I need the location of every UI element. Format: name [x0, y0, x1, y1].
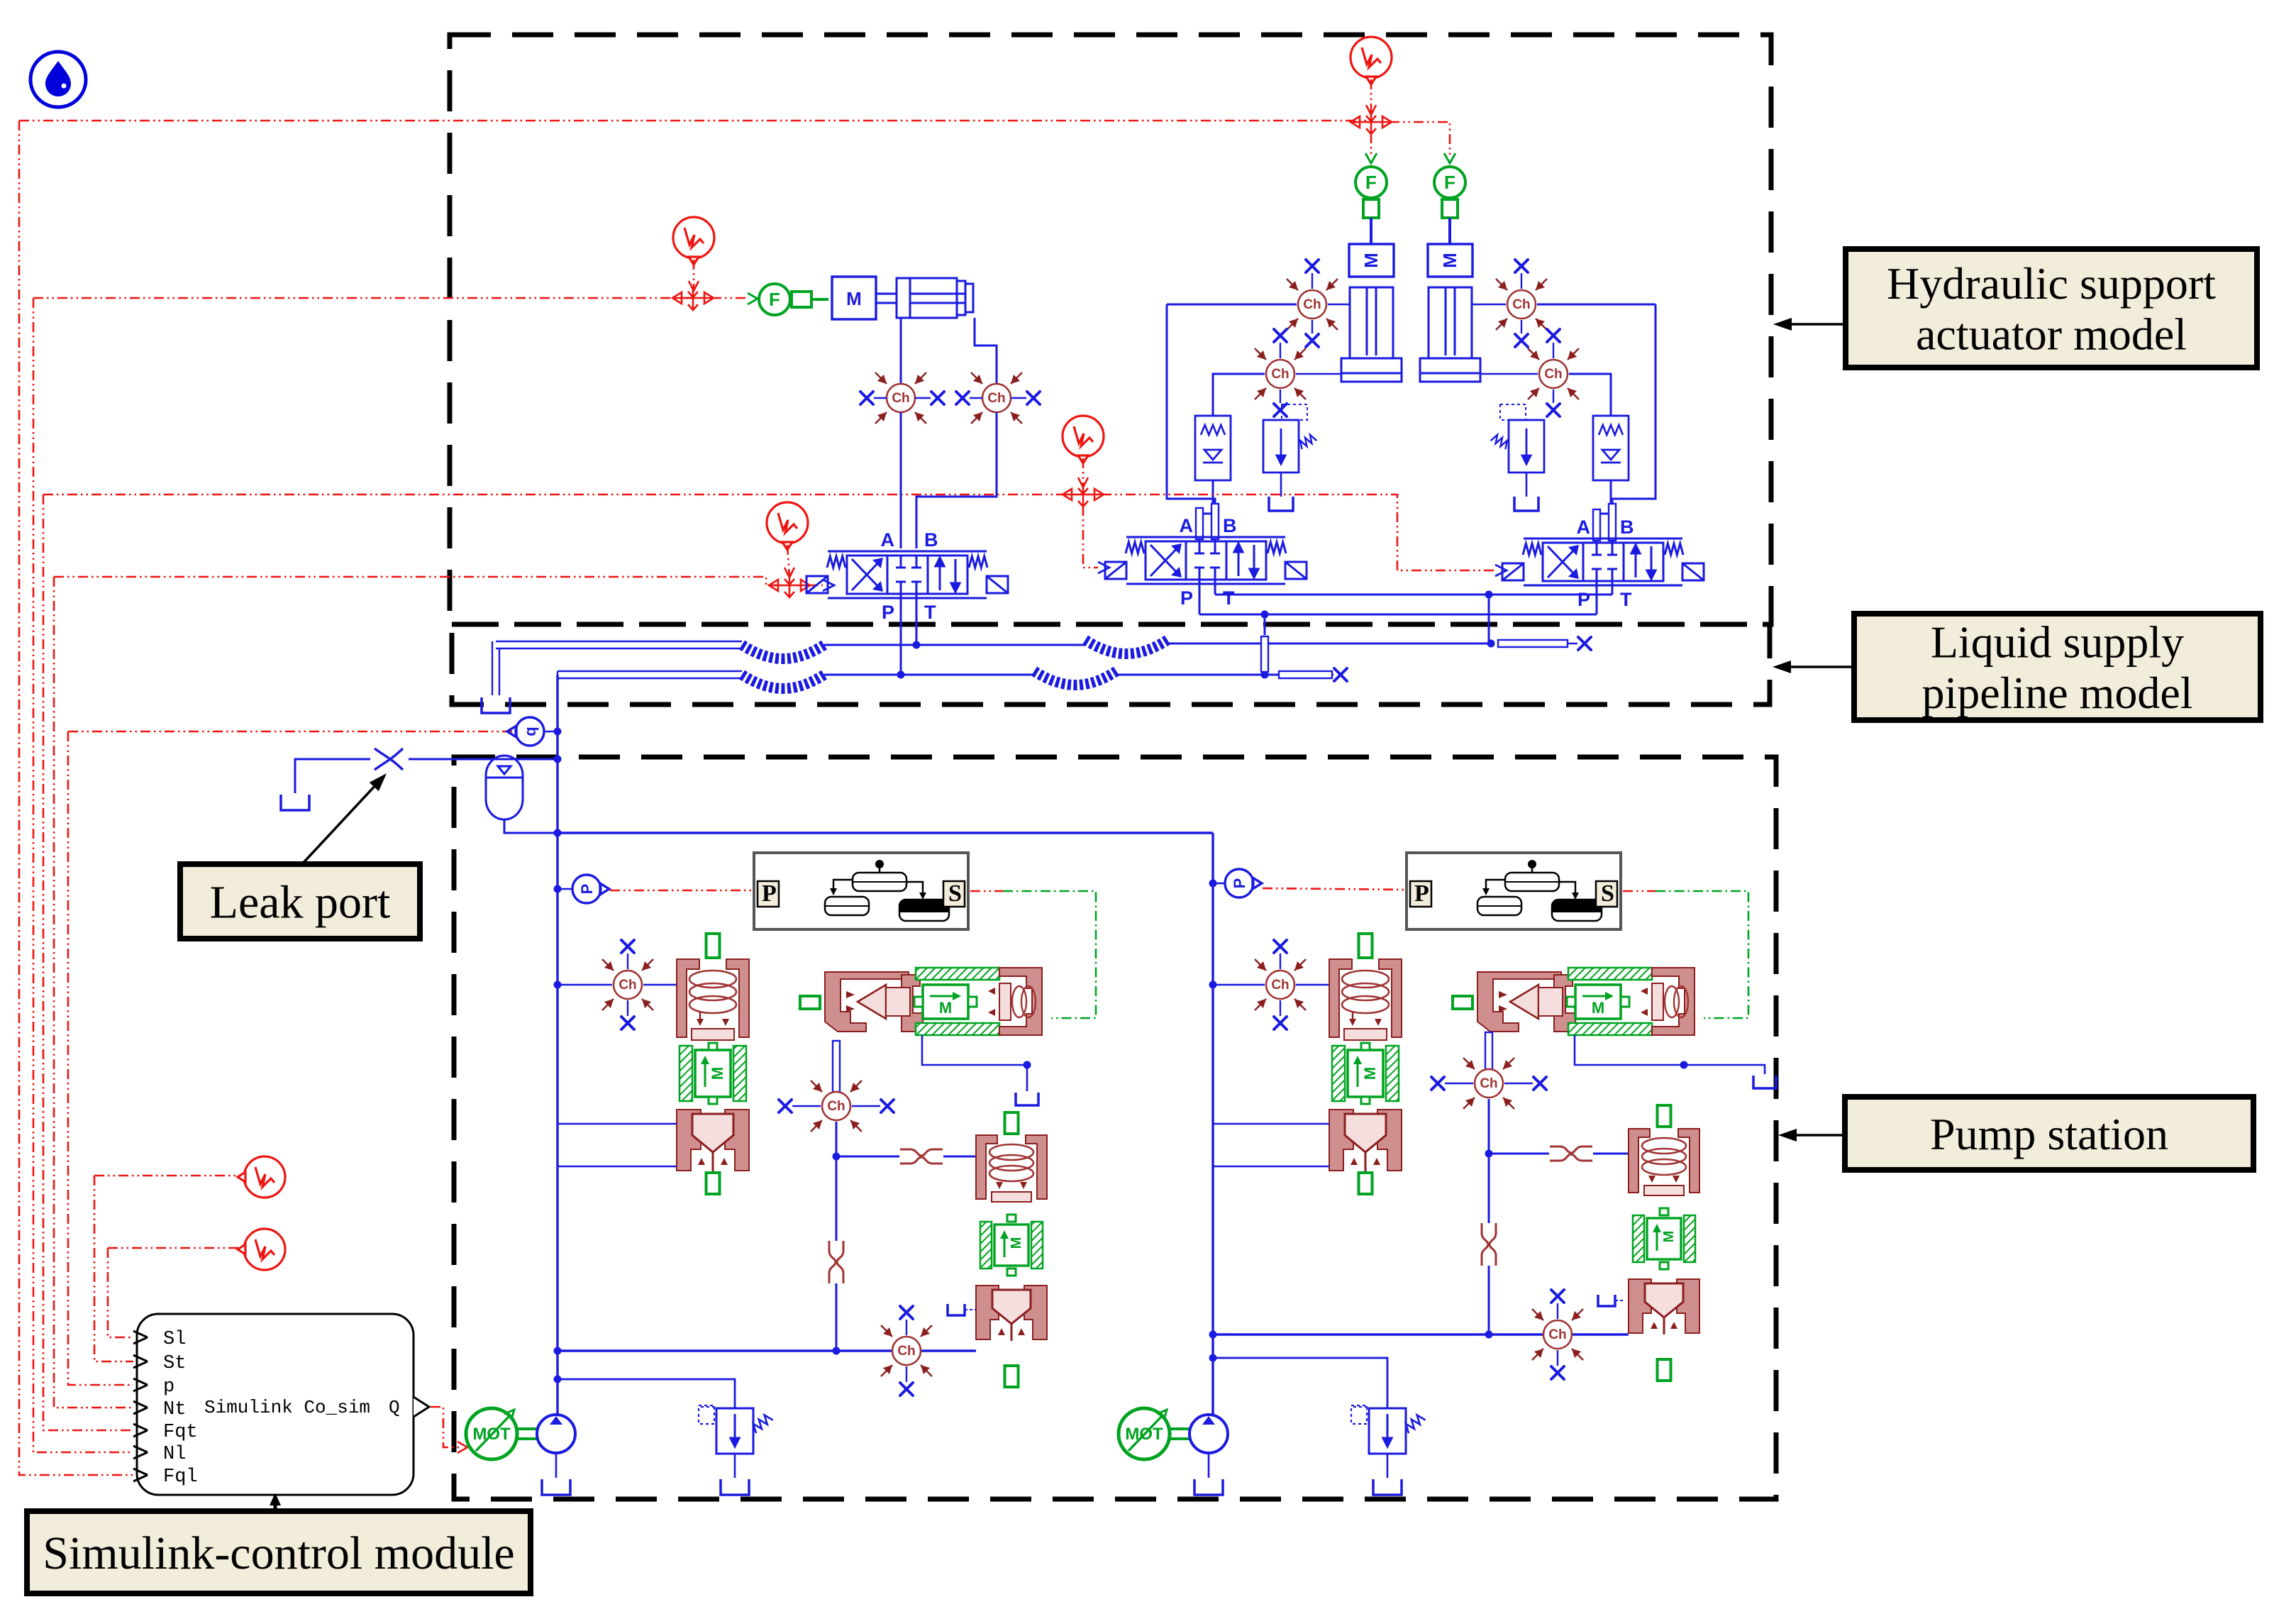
junction lower pipe valve1 P — [897, 671, 905, 679]
vertical cylinder 3 — [1420, 287, 1480, 382]
tank under relief right group — [1387, 1454, 1389, 1478]
x mark above Ch cyl2 upper — [1311, 273, 1313, 289]
svg-text:Ch: Ch — [1480, 1076, 1497, 1091]
green port above unloader right — [1359, 934, 1372, 958]
wire rail R1 down to upper pipe — [1488, 595, 1490, 645]
check valve left — [1195, 416, 1231, 480]
signal wire junction2 down into valve2 — [1083, 506, 1098, 568]
bracket tank beside funnel right — [1598, 1295, 1615, 1306]
lower pipe right segment — [1116, 674, 1279, 676]
right rail down to valve3 B — [1612, 304, 1656, 543]
motor and pump right group — [1119, 1408, 1228, 1459]
wire check left to valve2 A — [1199, 480, 1213, 541]
x above Ch rail left — [906, 1320, 907, 1335]
stub and x end upper pipe — [1568, 643, 1577, 644]
main riser left pump group — [556, 675, 558, 1415]
svg-text:Simulink-control module: Simulink-control module — [43, 1527, 514, 1579]
swash pump assembly left — [825, 968, 1042, 1035]
orifice horizontal left group — [900, 1149, 943, 1164]
left rail down to valve2 B — [1167, 304, 1215, 541]
x above Ch inlet left — [627, 954, 628, 969]
signal wire junction2 to valve3 — [1102, 494, 1495, 570]
arrow to pipeline box — [1791, 665, 1854, 668]
junction orifice node right — [1485, 1150, 1493, 1158]
signal wire junction down to F2 — [1370, 133, 1372, 158]
fluid properties icon — [30, 52, 86, 107]
svg-text:Liquid supply: Liquid supply — [1931, 617, 2184, 668]
pipe from pump to chamber down right — [1485, 1032, 1492, 1069]
junction upper pipe vertical — [1261, 641, 1269, 648]
directional valve V2 4/3 — [1126, 537, 1285, 584]
tank under relief right — [1526, 473, 1528, 497]
chamber Ch bottom rail right — [1532, 1309, 1583, 1360]
pressure sensor P right group — [1225, 869, 1262, 897]
svg-text:pipeline model: pipeline model — [1921, 668, 2192, 718]
lower pipe mid segment — [824, 674, 1034, 676]
orifice vertical left group — [829, 1241, 843, 1283]
signal wire scope to top junction — [1370, 79, 1372, 114]
green port below unloader left — [706, 1173, 720, 1194]
label Hydraulic support actuator model — [1846, 249, 2257, 368]
arrow to actuator box — [1792, 323, 1846, 326]
svg-text:B: B — [1620, 516, 1634, 538]
chamber Ch A side — [875, 372, 926, 424]
wire Ch outlet down to junction right — [1488, 1099, 1490, 1154]
pump out line right ports right group — [1575, 1035, 1765, 1074]
svg-text:S: S — [1601, 880, 1614, 907]
bottom rail left group — [558, 1349, 976, 1352]
svg-text:Nl: Nl — [163, 1444, 186, 1465]
wire cylinder3 base to Ch lower — [1480, 373, 1538, 375]
x below Ch rail right — [1557, 1350, 1558, 1366]
scope circle top force input — [1351, 37, 1392, 84]
orifice vertical right group — [1482, 1223, 1496, 1266]
svg-text:Ch: Ch — [827, 1099, 845, 1114]
hose lower 2 — [1034, 671, 1116, 685]
x left of Ch outlet right — [1445, 1083, 1473, 1084]
wire orifice to bottom rail right — [1488, 1266, 1490, 1335]
signal wire P sensor to state machine — [610, 890, 754, 892]
wire cylinder rod side to chamber B — [975, 318, 997, 384]
signal wire Nt bundle — [54, 577, 780, 585]
svg-text:Fqt: Fqt — [163, 1422, 198, 1443]
svg-text:M: M — [1009, 1237, 1024, 1249]
mass block M2 vertical — [1349, 244, 1394, 277]
green port below unloader right — [1359, 1173, 1372, 1194]
x mark below Ch cyl2 lower — [1280, 389, 1281, 403]
rail R2 under valves — [1199, 614, 1597, 616]
signal wire p bundle — [68, 731, 514, 733]
wire rail R2 down to pipe junction — [1264, 614, 1266, 635]
link F3 to mass3 — [1442, 199, 1458, 244]
svg-text:Fql: Fql — [163, 1466, 198, 1488]
svg-text:F: F — [1444, 172, 1455, 193]
x below Ch rail left — [906, 1366, 907, 1382]
green port above relief assembly right — [1658, 1105, 1671, 1127]
wire check right to valve3 A — [1597, 480, 1611, 543]
scope circle upper near simulink — [238, 1156, 285, 1198]
x below Ch inlet right — [1280, 1000, 1281, 1016]
hose lower 1 — [742, 675, 824, 689]
green port swash pump left side — [800, 996, 820, 1009]
wire junction down through vertical orifice — [836, 1156, 838, 1241]
wire Ch lower to cylinder2 base — [1296, 373, 1341, 375]
wire valve1 T to upper pipe — [916, 594, 918, 645]
junction upper pipe valve1 T — [913, 641, 921, 649]
arrow to leak port — [301, 787, 374, 866]
x mark below Ch cyl3 lower — [1553, 389, 1554, 403]
scope circle lower near simulink — [238, 1229, 285, 1270]
svg-text:P: P — [1180, 587, 1193, 609]
right group riser — [1211, 833, 1214, 1415]
lower pipe from pump riser — [558, 671, 742, 681]
svg-text:M: M — [1361, 1067, 1379, 1080]
svg-text:P: P — [762, 880, 777, 907]
force sensor F1 — [759, 284, 790, 315]
x above Ch rail right — [1557, 1303, 1558, 1319]
hydraulic support actuator model boundary box — [450, 35, 1771, 624]
x port left of ChB — [970, 397, 982, 399]
rail R1 under valves — [1215, 594, 1612, 596]
svg-text:M: M — [1439, 253, 1460, 268]
svg-text:Ch: Ch — [987, 391, 1005, 406]
pump out line right ports — [922, 1035, 1027, 1091]
svg-text:Nt: Nt — [163, 1399, 186, 1420]
relief assembly left group — [976, 1135, 1047, 1341]
pipe element vertical connecting pipes — [1261, 636, 1268, 672]
svg-text:Leak port: Leak port — [210, 877, 391, 929]
state machine block left — [754, 853, 968, 929]
chamber Ch left group inlet — [602, 959, 653, 1010]
mass block M3 vertical — [1428, 244, 1473, 277]
tank under pump left group — [555, 1453, 558, 1478]
pipe element valve3 A — [1593, 509, 1600, 541]
accumulator — [486, 756, 523, 819]
pilot relief left — [1263, 404, 1316, 473]
junction lower pipe vertical — [1261, 671, 1269, 679]
pipe element valve2 A — [1196, 508, 1203, 539]
relief assembly right group — [1629, 1129, 1699, 1335]
relief feed line right group — [1213, 1358, 1387, 1408]
signal stub S port left — [970, 890, 1003, 893]
hose upper 2 — [1085, 640, 1168, 654]
green arrow into force sensor — [748, 293, 758, 304]
signal wire St from scope — [94, 1175, 244, 1177]
pilot relief right — [1491, 404, 1544, 473]
signal wire Fql bundle — [19, 120, 1371, 122]
wire sensor to riser — [544, 731, 558, 733]
simulink co-sim block — [133, 1314, 429, 1495]
label Simulink-control module — [27, 1511, 531, 1593]
x left of Ch outlet — [792, 1105, 821, 1107]
signal wire branch to F3 — [1390, 122, 1450, 158]
svg-text:Sl: Sl — [163, 1329, 186, 1350]
x above Ch inlet right — [1280, 954, 1281, 969]
green arrow into F3 — [1444, 153, 1455, 163]
svg-text:St: St — [163, 1353, 186, 1374]
directional valve V1 4/3 — [828, 551, 987, 598]
svg-text:Ch: Ch — [619, 978, 636, 993]
svg-text:A: A — [1180, 515, 1194, 536]
svg-text:q: q — [521, 726, 539, 736]
relief valve left group — [699, 1405, 773, 1454]
leak line from riser — [409, 758, 558, 761]
hose upper 1 — [742, 645, 824, 659]
supply line to right pump group — [558, 831, 1213, 834]
svg-text:Ch: Ch — [897, 1344, 915, 1359]
junction upper pipe right — [1487, 640, 1495, 648]
check valve right — [1593, 416, 1629, 480]
x mark above Ch cyl3 lower — [1553, 343, 1554, 358]
force sensor F2 — [1355, 167, 1387, 198]
scope circle valve1 pilot — [767, 502, 808, 550]
wire riser to unloader low port right — [1213, 1166, 1329, 1168]
svg-text:Pump station: Pump station — [1930, 1109, 2168, 1159]
svg-text:P: P — [1231, 878, 1248, 889]
wire Ch to cylinder2 — [1328, 304, 1350, 305]
x mark below Ch cyl2 upper — [1311, 320, 1313, 333]
svg-text:Ch: Ch — [1271, 367, 1289, 382]
stub and x end lower pipe — [1332, 674, 1333, 675]
x port left of ChA — [874, 397, 887, 399]
mass block M horizontal cylinder — [832, 277, 876, 319]
relief feed line left group — [558, 1379, 735, 1408]
green port below relief assembly left — [1005, 1366, 1019, 1387]
wire cylinder3 to Ch — [1472, 304, 1506, 305]
signal stub S port right — [1623, 890, 1656, 893]
wire chamber A to valve A — [900, 412, 902, 548]
tank right of pump assembly right group — [1753, 1076, 1776, 1088]
label Pump station — [1845, 1097, 2253, 1170]
wire Ch left rail cyl2 — [1167, 304, 1297, 306]
svg-text:T: T — [1620, 589, 1632, 610]
signal wire Nl bundle — [33, 297, 693, 299]
arrow label to simulink block — [274, 1505, 277, 1511]
green signal wire S to pump control left — [1003, 891, 1096, 1018]
svg-text:F: F — [1365, 172, 1377, 193]
svg-text:B: B — [1223, 515, 1237, 536]
directional valve V3 4/3 — [1524, 538, 1682, 585]
chamber Ch cyl3 lower — [1528, 348, 1579, 399]
green port below relief assembly right — [1658, 1359, 1671, 1381]
wire orifice to relief spring box right — [1593, 1153, 1629, 1155]
chamber Ch cyl3 upper — [1496, 279, 1547, 330]
svg-text:M: M — [1360, 253, 1382, 268]
svg-text:Simulink Co_sim: Simulink Co_sim — [204, 1397, 370, 1418]
signal wire Sl from scope — [108, 1247, 244, 1249]
signal junction top — [1351, 111, 1392, 134]
wire to horizontal orifice right — [1489, 1153, 1549, 1155]
wire riser to Ch inlet — [558, 984, 612, 986]
junction orifice node left — [833, 1153, 841, 1161]
label Leak port — [180, 864, 420, 939]
upper pipe mid segment — [824, 644, 1085, 646]
force link F1 to mass — [792, 292, 828, 307]
wire riser to unloader low port — [558, 1166, 677, 1168]
pipe element valve2 B — [1211, 504, 1219, 539]
wire junction down through vertical orifice right — [1488, 1154, 1490, 1223]
wire Ch inlet to unloader right — [1296, 984, 1329, 986]
state machine block right — [1407, 853, 1621, 929]
wire chamber B to valve B — [916, 412, 997, 548]
svg-text:Ch: Ch — [892, 391, 909, 406]
wire Ch outlet down to junction — [836, 1122, 838, 1156]
wire riser to unloader mid port — [558, 1123, 677, 1125]
wire Ch lower to check valve right — [1569, 374, 1611, 416]
tank leak port — [281, 795, 309, 810]
flow sensor q leak line — [507, 717, 544, 746]
wire valve2 P to rail R2 — [1199, 580, 1201, 614]
bracket tank beside funnel left — [948, 1304, 965, 1315]
relief valve right group — [1351, 1405, 1426, 1454]
signal junction force left — [672, 287, 714, 310]
wire Ch right rail cyl3 — [1537, 304, 1656, 306]
chamber Ch left pump outlet — [811, 1081, 862, 1132]
svg-text:M: M — [1661, 1231, 1677, 1243]
tank at upper pipe left end — [482, 697, 510, 713]
svg-text:M: M — [1592, 999, 1604, 1017]
green signal wire S right to pump control — [1656, 891, 1748, 1018]
svg-text:P: P — [1414, 880, 1429, 907]
chamber Ch cyl2 lower — [1255, 348, 1306, 399]
svg-text:Q: Q — [389, 1397, 400, 1418]
svg-text:A: A — [1577, 516, 1591, 538]
wire cylinder A to chamber — [900, 318, 902, 384]
svg-text:M: M — [939, 999, 952, 1017]
signal wire Q output to motor — [431, 1407, 461, 1447]
svg-text:P: P — [1577, 589, 1590, 610]
svg-text:S: S — [948, 880, 962, 907]
svg-text:T: T — [924, 602, 936, 623]
link F2 to mass2 — [1363, 199, 1379, 244]
pipe element lower right — [1279, 671, 1332, 678]
x mark above Ch cyl3 upper — [1521, 273, 1522, 289]
x right of Ch outlet right — [1504, 1083, 1533, 1084]
label Liquid supply pipeline model — [1854, 614, 2261, 720]
x mark below Ch cyl3 upper — [1521, 320, 1522, 333]
svg-text:M: M — [846, 288, 862, 309]
pump station boundary box — [454, 757, 1776, 1499]
svg-text:Hydraulic support: Hydraulic support — [1887, 258, 2216, 309]
svg-text:Ch: Ch — [1544, 367, 1562, 382]
wire Ch lower to check valve left — [1213, 374, 1265, 416]
chamber Ch cyl2 upper — [1287, 279, 1338, 330]
svg-text:Ch: Ch — [1303, 297, 1321, 312]
hydraulic cylinder horizontal — [876, 278, 973, 318]
wire valve2 T to rail R1 — [1214, 580, 1216, 595]
pipe element valve3 B — [1609, 504, 1616, 541]
vertical cylinder 2 — [1341, 287, 1402, 382]
svg-text:actuator model: actuator model — [1916, 309, 2187, 360]
svg-text:P: P — [578, 884, 596, 895]
liquid supply pipeline model boundary box — [452, 624, 1770, 704]
force sensor F3 — [1434, 167, 1465, 198]
svg-text:B: B — [924, 529, 938, 551]
chamber Ch right pump outlet — [1463, 1058, 1514, 1109]
signal wire scope to junction — [693, 260, 695, 289]
wire riser to Ch inlet right — [1213, 984, 1265, 986]
orifice horizontal right group — [1550, 1146, 1592, 1161]
signal wire Fqt bundle — [43, 494, 1083, 496]
x right of Ch outlet — [852, 1105, 880, 1107]
svg-text:F: F — [769, 289, 780, 310]
wire to horizontal orifice left — [836, 1156, 899, 1158]
x port right of ChB — [1011, 397, 1026, 399]
signal wire junction to force sensor — [711, 297, 746, 299]
pipe element upper right — [1498, 640, 1568, 647]
arrow to pump station box — [1797, 1134, 1845, 1137]
green arrow into F2 — [1365, 153, 1377, 163]
wire riser to unloader mid port right — [1213, 1123, 1329, 1125]
tank under relief left — [1280, 473, 1282, 497]
signal wire scope to valve1 junction — [787, 545, 789, 576]
svg-text:M: M — [709, 1067, 726, 1080]
svg-text:Ch: Ch — [1271, 978, 1289, 993]
upper pipe left segment — [492, 641, 742, 695]
tank under relief left group — [734, 1454, 736, 1478]
wire Ch inlet to unloader — [643, 984, 677, 986]
signal wire junction into valve1 pilot — [808, 585, 823, 587]
scope circle valve2 pilot — [1063, 416, 1104, 463]
signal wire scope to junction2 — [1082, 458, 1085, 486]
chamber Ch B side — [971, 372, 1022, 424]
svg-text:T: T — [1223, 587, 1235, 609]
unloader valve left group — [677, 959, 749, 1172]
green port swash pump right side — [1453, 996, 1473, 1009]
pressure sensor P left group — [572, 875, 609, 903]
x below Ch inlet left — [627, 1000, 628, 1016]
x port right of ChA — [915, 397, 931, 399]
upper pipe right segment — [1168, 643, 1491, 645]
signal wire P sensor right to state machine — [1263, 888, 1407, 890]
svg-text:A: A — [881, 529, 895, 551]
leak line to tank — [295, 759, 370, 793]
x mark above Ch cyl2 lower — [1280, 343, 1281, 358]
wire accumulator to riser — [504, 819, 558, 833]
green port above relief assembly left — [1005, 1112, 1019, 1134]
bottom rail right group — [1213, 1333, 1629, 1335]
svg-text:Ch: Ch — [1512, 297, 1530, 312]
tank under pump right group — [1208, 1453, 1210, 1478]
wire valve1 P to lower pipe — [900, 594, 902, 675]
unloader valve right group — [1329, 959, 1402, 1172]
chamber Ch bottom rail left — [881, 1325, 932, 1376]
signal junction valve1 — [769, 574, 810, 597]
green port above unloader left — [706, 934, 720, 958]
wire orifice to relief spring box — [943, 1156, 976, 1158]
swash pump assembly right — [1477, 968, 1695, 1035]
svg-text:p: p — [163, 1376, 174, 1398]
motor and pump left group — [466, 1408, 575, 1459]
svg-text:P: P — [882, 602, 894, 623]
wire valve3 P to rail R2 — [1596, 581, 1598, 614]
tank right of pump assembly left group — [1016, 1093, 1038, 1105]
leak orifice — [375, 748, 403, 770]
wire valve3 T to rail R1 — [1612, 581, 1614, 595]
svg-text:Ch: Ch — [1548, 1327, 1566, 1342]
wire orifice to bottom rail — [836, 1283, 838, 1351]
pipe from pump to chamber down — [833, 1041, 840, 1092]
scope circle force input left — [673, 217, 714, 265]
chamber Ch right group inlet — [1255, 959, 1306, 1010]
signal junction valve2 — [1063, 483, 1104, 507]
